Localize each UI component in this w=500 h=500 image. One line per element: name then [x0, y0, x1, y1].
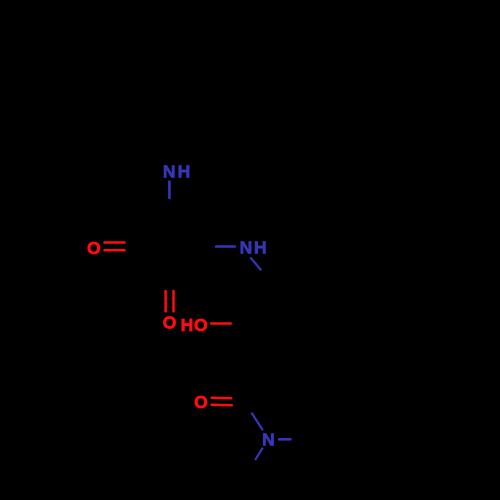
wire O1=C double bond stubs (red halves): [105, 241, 125, 244]
svg-text:H: H: [178, 161, 191, 181]
svg-text:O: O: [163, 313, 177, 333]
svg-text:N: N: [262, 429, 275, 449]
node N1 label (top NH amine): [163, 161, 190, 181]
wire N3-CH3 bond stub (blue horizontal): [279, 438, 290, 441]
wire N2-C bond stub (blue diagonal): [251, 258, 261, 269]
svg-text:H: H: [254, 237, 267, 257]
wire C=O2 double bond stubs (red vertical halves): [164, 291, 167, 311]
wire O4=C double bond stubs (red halves): [212, 397, 232, 400]
wire O3-C bond stub (red half): [211, 322, 231, 325]
svg-text:N: N: [163, 161, 176, 181]
svg-text:O: O: [87, 238, 101, 258]
wire C-N3 bond stub (blue diagonal upper): [252, 413, 263, 429]
node O3 label (hydroxyl HO): [181, 315, 208, 335]
svg-text:H: H: [181, 315, 194, 335]
svg-text:O: O: [194, 315, 208, 335]
svg-text:N: N: [240, 238, 253, 258]
node N2 label (right NH amine): [240, 237, 267, 257]
wire N3-CH3 bond stub (blue diagonal lower): [256, 448, 263, 459]
wire N1-C bond stub (blue half): [168, 182, 171, 199]
svg-text:O: O: [194, 392, 208, 412]
wire C-N2 bond stub (blue half): [216, 245, 235, 248]
